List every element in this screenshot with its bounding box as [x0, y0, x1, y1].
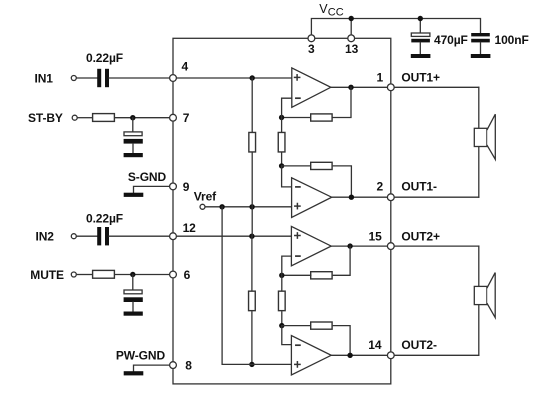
wire R4 to node fb3: [282, 274, 311, 276]
node input divider tap ch1: [250, 75, 255, 80]
ground for C st-by: [124, 153, 143, 157]
wire OUT2+ to speaker LS2: [391, 245, 479, 247]
pin 7: [170, 114, 177, 121]
wire pin9 to S-GND ground: [134, 186, 174, 192]
node fb3: [279, 273, 284, 278]
capacitor C2 0.22uF: [97, 227, 109, 245]
wire MUTE to R mute: [77, 274, 91, 276]
wire fb4 to R6: [282, 325, 311, 327]
wire A2 output to pin2: [332, 196, 391, 198]
resistor divider ch1: [249, 132, 256, 152]
node input divider tap ch2: [249, 234, 254, 239]
resistor divider ch2: [249, 291, 256, 311]
capacitor 100nF: [471, 33, 490, 54]
resistor R3 feedback A2: [311, 162, 332, 169]
wire fb2 to R3: [282, 165, 311, 167]
wire R stby to pin7: [115, 117, 173, 119]
node op-amp A4 + junction: [249, 362, 254, 367]
wire fb3 to A3 inverting input: [282, 256, 292, 275]
pin 12: [170, 233, 177, 240]
ground for C mute: [124, 312, 143, 316]
ground PW-GND: [124, 371, 144, 375]
wire R6 to A4 output: [333, 326, 350, 356]
wire speaker LS1 vertical: [478, 87, 480, 197]
wire fb2 to A2 inverting input: [282, 166, 292, 187]
pin 9: [170, 183, 177, 190]
net label Vcc: [319, 2, 343, 19]
node A4 output junction: [347, 353, 352, 358]
pin 2: [387, 194, 394, 201]
wire A4 output to pin14: [331, 354, 391, 356]
svg-text:ST-BY: ST-BY: [28, 111, 63, 125]
node fb1: [279, 115, 284, 120]
wire A1 output to pin1: [331, 86, 391, 88]
op-amp A4: [291, 336, 331, 375]
svg-text:PW-GND: PW-GND: [116, 348, 166, 362]
node fb4: [279, 323, 284, 328]
pin 4: [170, 75, 177, 82]
node A3 output junction: [347, 243, 352, 248]
capacitor C mute: [124, 290, 143, 312]
wire rail to C470: [419, 19, 421, 34]
node MUTE cap junction: [130, 272, 135, 277]
wire IN2 to C2: [77, 235, 98, 237]
svg-text:8: 8: [185, 359, 192, 373]
wire R3 to A2 output: [333, 166, 351, 197]
wire OUT2- to speaker LS2: [391, 354, 479, 356]
node fb2: [279, 163, 284, 168]
svg-text:14: 14: [368, 338, 382, 352]
svg-text:7: 7: [183, 111, 190, 125]
op-amp A3: [291, 226, 331, 265]
terminal circle IN2: [71, 234, 76, 239]
resistor R2: [278, 132, 285, 152]
op-amp A1: [292, 68, 331, 107]
svg-text:4: 4: [182, 60, 189, 74]
ground for 470uF: [411, 54, 431, 58]
svg-text:6: 6: [184, 268, 191, 282]
wire A1 output to feedback R1: [332, 87, 351, 117]
node A1 output junction: [348, 85, 353, 90]
wire divider ch1 vertical upper: [251, 78, 253, 132]
wire divider ch2 vertical upper: [251, 236, 253, 290]
wire fb1 to A1 inverting input: [282, 98, 292, 117]
svg-text:OUT2+: OUT2+: [401, 229, 440, 243]
wire IN1 to C1: [77, 77, 98, 79]
svg-text:0.22µF: 0.22µF: [86, 51, 123, 65]
node Vref branch right: [249, 204, 254, 209]
svg-text:OUT1-: OUT1-: [401, 179, 437, 193]
ground for 100nF: [471, 54, 491, 58]
pin 3: [308, 35, 315, 42]
svg-text:100nF: 100nF: [495, 33, 529, 47]
svg-text:470µF: 470µF: [434, 33, 468, 47]
wire OUT1- to speaker LS1: [391, 196, 479, 198]
wire pin13 to rail: [350, 19, 352, 39]
wire ST-BY to R stby: [77, 117, 91, 119]
wire C2 to pin12 to op-amp A3: [109, 235, 291, 237]
pin 14: [387, 352, 394, 359]
wire C1 to pin4 to op-amp A1: [109, 77, 292, 79]
speaker LS1: [474, 114, 495, 159]
pin 6: [170, 271, 177, 278]
node ST-BY cap junction: [130, 115, 135, 120]
wire pin8 to PW-GND ground: [134, 365, 174, 371]
wire OUT1+ to speaker LS1: [391, 86, 479, 88]
svg-text:OUT1+: OUT1+: [401, 70, 440, 84]
resistor R5: [278, 291, 285, 311]
pin 13: [348, 35, 355, 42]
resistor R mute: [93, 270, 115, 278]
wire fb3 to R5: [281, 275, 283, 290]
svg-text:IN2: IN2: [36, 230, 55, 244]
wire Vref to op-amp A2 +: [205, 206, 291, 208]
svg-text:0.22µF: 0.22µF: [86, 211, 123, 225]
wire divider ch1 vertical lower: [251, 153, 253, 237]
svg-text:9: 9: [183, 180, 190, 194]
svg-text:2: 2: [377, 179, 384, 193]
svg-text:IN1: IN1: [35, 72, 54, 86]
wire Vref to op-amp A4 +: [222, 207, 291, 365]
wire A3 output to pin15: [331, 245, 391, 247]
terminal circle MUTE: [71, 272, 76, 277]
capacitor 470uF: [411, 33, 430, 54]
Vcc rail wire: [311, 19, 480, 39]
terminal circle IN1: [71, 76, 76, 81]
svg-text:3: 3: [308, 42, 315, 56]
resistor R1 feedback A1: [311, 114, 332, 121]
resistor R4 feedback A3: [311, 272, 332, 279]
wire divider ch2 vertical lower: [251, 312, 253, 365]
capacitor C1 0.22uF: [97, 69, 109, 87]
svg-text:15: 15: [369, 229, 383, 243]
wire A3 output to feedback R4: [333, 246, 350, 275]
wire junction to C mute: [132, 275, 134, 291]
svg-text:S-GND: S-GND: [128, 170, 167, 184]
resistor R6 feedback A4: [311, 322, 332, 329]
wire fb4 to A4 inverting input: [282, 326, 292, 345]
IC body U1: [173, 38, 391, 384]
node Vcc junction at C470: [418, 16, 423, 21]
node A2 output junction: [349, 195, 354, 200]
pin 8: [170, 362, 177, 369]
svg-text:13: 13: [345, 42, 359, 56]
terminal circle Vref: [200, 204, 205, 209]
pin 15: [387, 243, 394, 250]
svg-text:OUT2-: OUT2-: [401, 338, 437, 352]
speaker LS2: [474, 273, 495, 318]
wire fb1 to R2: [281, 118, 283, 132]
wire R mute to pin6: [115, 274, 173, 276]
svg-text:MUTE: MUTE: [30, 268, 64, 282]
node Vref branch left: [219, 204, 224, 209]
pin 1: [387, 84, 394, 91]
wire speaker LS2 vertical: [478, 246, 480, 355]
wire R1 to node fb1: [282, 117, 310, 119]
wire R5 to node fb4: [281, 312, 283, 326]
svg-text:Vref: Vref: [194, 190, 217, 204]
wire R2 to node fb2: [281, 153, 283, 166]
svg-text:1: 1: [377, 70, 384, 84]
ground S-GND: [124, 193, 144, 197]
op-amp A2: [292, 178, 332, 218]
svg-text:12: 12: [183, 221, 197, 235]
resistor R st-by: [93, 114, 115, 122]
node Vcc junction at pin13: [349, 16, 354, 21]
svg-text:CC: CC: [328, 6, 344, 18]
capacitor C st-by: [124, 132, 143, 153]
wire junction to C stby: [132, 118, 134, 132]
terminal circle ST-BY: [72, 115, 77, 120]
